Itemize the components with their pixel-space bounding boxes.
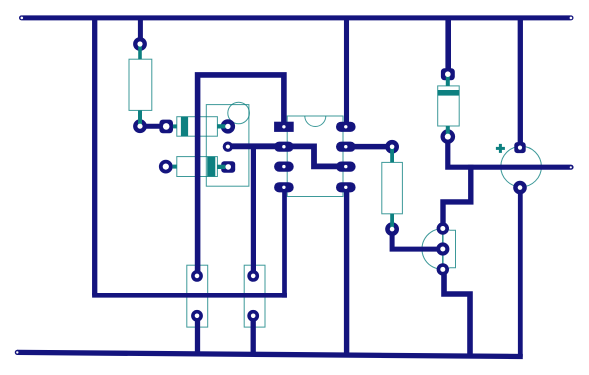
hole rail left via (21, 17, 24, 20)
hole R4 bottom (390, 227, 395, 232)
pad D2 left (square) (159, 120, 173, 134)
pad C1 plus (square) (514, 142, 525, 153)
hole rail right via (570, 17, 573, 20)
lead R4 top (390, 147, 394, 163)
pad D3 left (159, 160, 173, 174)
pad C1 minus (513, 181, 527, 195)
resistor R4 body (382, 162, 403, 213)
pad Q1 base (436, 242, 449, 255)
hole U1 pin4 (282, 186, 285, 189)
hole Q1 emitter (440, 267, 445, 272)
wire branch down to J2 (251, 146, 256, 276)
lead D3 left (173, 165, 177, 169)
lead R1 bottom (138, 110, 142, 126)
hole U1 pin5 (344, 186, 347, 189)
pad J2 top (247, 270, 259, 282)
pad U1 pin6 (336, 162, 356, 172)
hole R1 bottom (137, 124, 142, 129)
capacitor C1 plus sign (496, 144, 505, 153)
pad U1 pin7 (336, 142, 356, 152)
op-amp U1 pin1 notch (305, 116, 326, 127)
wire rail to R1 top (138, 16, 143, 45)
lead D1 top (446, 74, 450, 86)
pad U1 pin5 (336, 182, 356, 192)
pad J1 bottom (191, 310, 203, 322)
hole U1 pin3 (282, 165, 285, 168)
pad R1 top (133, 37, 147, 51)
wire rail to C1 top (518, 16, 523, 148)
hole C1 plus (518, 146, 522, 150)
lead D1 bottom (446, 126, 450, 137)
op-amp U1 outline (287, 116, 343, 197)
wire rail to U1 pin8 (344, 16, 349, 127)
wire branch to Q1 collector (443, 165, 471, 229)
hole Q1 collector (440, 226, 445, 231)
pad U1 pin8 (336, 122, 356, 132)
wire left vertical (92, 16, 97, 296)
pad U1 pin1 (rect) (274, 122, 294, 132)
wire U1 pin4 down (282, 187, 287, 297)
lead R1 top (138, 44, 142, 59)
wire J1 bottom to rail (195, 316, 200, 356)
pad R1 bottom (133, 119, 147, 133)
pad U1 pin4 (274, 182, 294, 192)
pad U1 pin2 (274, 142, 294, 152)
resistor R1 body (129, 59, 152, 110)
transistor Q1 outline (422, 229, 456, 270)
wire trimmer mid to U1 pin2 (228, 143, 284, 149)
diode D2 band (181, 117, 188, 137)
wire U1 pin2 to pin6 jog (284, 146, 346, 166)
wire U1 pin1 loop to J1 (198, 75, 284, 276)
hole R4 top (390, 145, 395, 150)
hole D2 left (163, 123, 170, 130)
hole U1 pin1 (282, 125, 285, 128)
hole J1 bottom (195, 314, 200, 319)
pad R4 bottom (385, 222, 399, 236)
hole C1 minus (518, 185, 523, 190)
pad trimmer middle (223, 142, 233, 152)
wire U1 pin5 to rail (344, 187, 349, 356)
hole D3 left (163, 164, 169, 170)
diode D1 band (438, 90, 460, 96)
jumper J2 outline (244, 265, 265, 327)
hole D2 right (225, 124, 230, 129)
pad J2 bottom (247, 310, 259, 322)
trimmer RP1 screw circle (228, 102, 250, 124)
diode D1 body (438, 86, 460, 126)
pad trimmer bottom / D3 right (square) (221, 161, 235, 173)
hole R1 top (137, 41, 142, 46)
wire U1 pin7 to R4 top (346, 144, 392, 150)
pad Q1 collector (437, 222, 449, 234)
wire top rail VCC (22, 15, 572, 20)
wire Q1 emitter to rail (444, 269, 470, 356)
wire C1 bottom to rail (518, 188, 523, 357)
wire R1 bottom to D2 left (140, 124, 166, 129)
jumper J1 outline (187, 265, 208, 327)
lead D2 right (217, 124, 225, 128)
lead D2 left (173, 124, 177, 128)
hole bottom rail left via (16, 351, 18, 353)
hole U1 pin8 (344, 125, 347, 128)
wire rail to D1 top (445, 16, 451, 75)
hole Q1 base (440, 247, 445, 252)
lead D3 right (217, 165, 225, 169)
hole J2 top (251, 274, 256, 279)
pad R4 top (385, 140, 399, 154)
diode D3 body (177, 157, 218, 177)
diode D2 body (177, 117, 218, 137)
pad J1 top (191, 270, 203, 282)
wire R4 bottom to Q1 base (392, 229, 443, 249)
wire J2 bottom to rail (251, 316, 256, 357)
hole U1 pin7 (344, 145, 347, 148)
wire bottom rail GND (17, 352, 523, 356)
hole D1 top (445, 71, 451, 77)
hole J2 bottom (251, 314, 256, 319)
hole trimmer mid (226, 145, 230, 149)
diode D3 band (207, 157, 215, 177)
pad U1 pin3 (274, 162, 294, 172)
trimmer RP1 outline (206, 105, 249, 187)
hole D1 bottom (445, 134, 451, 140)
pad D1 top (square) (441, 68, 455, 80)
capacitor C1 outline circle (501, 146, 542, 187)
pad D2 right / trimmer top (221, 119, 235, 133)
lead R4 bottom (390, 214, 394, 229)
hole J1 top (195, 274, 200, 279)
pad D1 bottom (441, 129, 456, 144)
wire D1 bottom to right node (448, 137, 571, 168)
hole U1 pin6 (344, 165, 347, 168)
pad Q1 emitter (437, 263, 449, 275)
transistor Q1 centerline (442, 226, 444, 272)
hole right node via (570, 166, 572, 168)
wire bottom horizontal to node (92, 293, 287, 298)
hole trimmer bottom (225, 164, 231, 170)
hole U1 pin2 (282, 145, 285, 148)
